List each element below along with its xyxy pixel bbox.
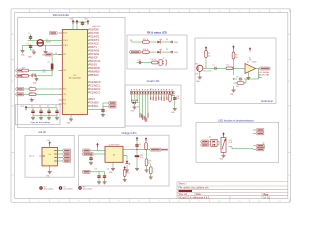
svg-text:H2: H2 <box>64 187 66 189</box>
svg-text:PB5/SCK: PB5/SCK <box>89 74 100 77</box>
svg-text:U4: U4 <box>49 154 51 156</box>
svg-text:R13: R13 <box>127 173 130 175</box>
capacitor C11 <box>103 174 106 179</box>
svg-text:C3: C3 <box>31 105 33 107</box>
mounting hole H2 <box>59 186 62 189</box>
ground <box>39 116 43 120</box>
LED D2 <box>157 49 161 54</box>
ground <box>47 116 51 120</box>
svg-text:R16: R16 <box>149 161 152 163</box>
svg-text:R10: R10 <box>236 86 239 88</box>
node label CHARGE <box>129 51 140 54</box>
ground <box>30 98 34 102</box>
ground <box>21 49 25 53</box>
right label tags column <box>89 29 101 108</box>
capacitor C6 <box>55 109 58 114</box>
capacitor C9 <box>135 143 138 148</box>
svg-text:GND: GND <box>174 52 179 54</box>
IC right pins + stubs <box>88 30 90 106</box>
svg-text:D2: D2 <box>166 49 168 51</box>
ground <box>125 168 129 172</box>
svg-text:C16: C16 <box>42 69 45 71</box>
frame ticks <box>11 9 291 203</box>
comb wires left half <box>132 94 148 116</box>
svg-text:U3 MCP73831: U3 MCP73831 <box>108 144 119 146</box>
svg-text:10k: 10k <box>235 57 238 59</box>
svg-text:U2: U2 <box>247 62 249 64</box>
node label LDR_B <box>256 148 264 151</box>
top power: wires up from IC <box>73 22 88 30</box>
power +3V3 arrow <box>72 20 75 24</box>
node label AN1 <box>256 132 264 135</box>
header connector P1 <box>131 91 175 94</box>
svg-text:U3: U3 <box>113 155 115 157</box>
resistor R13b <box>123 170 126 177</box>
svg-text:File: gerber_tuto_arduino.sch: File: gerber_tuto_arduino.sch <box>179 187 210 190</box>
svg-text:MIC-9x7-B2: MIC-9x7-B2 <box>204 71 212 73</box>
svg-text:100n: 100n <box>42 71 46 73</box>
svg-text:H3: H3 <box>83 187 85 189</box>
svg-text:R7: R7 <box>208 53 210 55</box>
ground <box>48 170 52 174</box>
svg-text:LM358: LM358 <box>252 62 257 64</box>
mounting hole H3 <box>78 186 81 189</box>
resistor R10 <box>237 82 244 85</box>
svg-text:Size: A4: Size: A4 <box>179 193 188 196</box>
svg-text:R12 1k: R12 1k <box>143 39 149 41</box>
svg-text:H1: H1 <box>44 187 46 189</box>
ground <box>111 167 115 171</box>
resistor R19 <box>150 167 153 174</box>
svg-text:R14 1k: R14 1k <box>151 59 157 61</box>
power +5V arrow usb <box>48 141 51 145</box>
resistor R17 <box>22 75 29 78</box>
mounting hole H1 <box>39 186 42 189</box>
node label USB_PWR <box>82 153 93 156</box>
ground <box>103 180 107 184</box>
left diode D3 <box>132 103 139 105</box>
resistor R13 <box>142 51 149 54</box>
svg-text:usb_d+: usb_d+ <box>29 156 34 158</box>
svg-text:C9: C9 <box>139 144 141 146</box>
ground <box>44 49 48 53</box>
svg-text:C11: C11 <box>107 169 110 171</box>
power VCC arrow 3 <box>123 166 126 170</box>
node label INT0 <box>16 69 24 72</box>
ground <box>123 177 127 181</box>
svg-text:D1: D1 <box>166 39 168 41</box>
charge LED vertical <box>126 161 131 165</box>
svg-text:C2: C2 <box>27 43 29 45</box>
node label SDA <box>108 102 116 105</box>
svg-text:LED bicolore et photoresistanc: LED bicolore et photoresistance <box>218 119 254 122</box>
svg-text:Audio Amp: Audio Amp <box>261 100 274 103</box>
resistor R9 <box>226 67 233 70</box>
svg-text:Capa de decouplage: Capa de decouplage <box>30 122 51 124</box>
svg-text:Microcontroller: Microcontroller <box>53 14 70 17</box>
power VCC arrow 2 <box>87 20 90 24</box>
svg-text:D4: D4 <box>122 162 124 164</box>
svg-text:PD5: PD5 <box>63 100 66 102</box>
power VCC arrow charger <box>96 143 99 147</box>
ground <box>32 50 36 54</box>
svg-text:Sheet: /: Sheet: / <box>179 183 187 186</box>
resistor R12 <box>142 41 149 44</box>
capacitor C14 <box>101 108 104 113</box>
power +5V arrow op-amp <box>249 47 252 51</box>
svg-text:P1: P1 <box>150 89 152 91</box>
svg-text:PC5/SCL: PC5/SCL <box>89 105 100 108</box>
op-amp U2 <box>245 64 256 74</box>
row 3: power LED + jumper <box>137 62 160 64</box>
svg-text:10k: 10k <box>177 98 180 100</box>
svg-text:usb off: usb off <box>38 131 46 134</box>
node label USB1 <box>63 149 71 152</box>
node label RXD <box>16 88 24 91</box>
svg-text:R15: R15 <box>229 140 232 142</box>
decoupling caps row <box>26 108 57 116</box>
svg-text:R3: R3 <box>30 92 32 94</box>
capacitor C15 <box>173 96 176 101</box>
node label USB3 <box>63 156 71 159</box>
node label MIC_OUT <box>259 67 270 70</box>
ground <box>222 153 226 157</box>
LDR R15 <box>221 138 226 153</box>
capacitor C12 <box>138 61 142 64</box>
power +5V arrow <box>205 46 208 50</box>
capacitor C4 <box>39 109 42 114</box>
svg-text:Max: Max <box>259 77 262 79</box>
bicolor LED package D5 <box>211 139 217 146</box>
svg-text:C7: C7 <box>213 65 215 67</box>
right resistor + cap <box>170 95 175 107</box>
capacitor C3 <box>31 109 34 114</box>
mic wiring <box>200 48 259 89</box>
crystal Y1 <box>37 40 43 46</box>
svg-text:+3V3 VCC: +3V3 VCC <box>92 26 101 28</box>
svg-text:R15: R15 <box>22 68 25 70</box>
node label LED_G <box>201 144 209 147</box>
node label VBUS <box>82 149 90 152</box>
mic MK1 <box>197 65 203 71</box>
node label TXD <box>16 93 24 96</box>
section titles <box>30 14 274 135</box>
ground <box>101 113 105 117</box>
node label TOSC1 <box>50 32 58 35</box>
resistor R7 <box>205 51 208 58</box>
reset pull-up R1 <box>29 57 52 77</box>
node label RESET_SW <box>16 74 24 77</box>
IC bottom gnd <box>70 115 72 118</box>
ground <box>173 106 177 110</box>
resistor R3 <box>29 93 36 96</box>
svg-text:KiCad E.D.A. eeschema 4.0.2: KiCad E.D.A. eeschema 4.0.2 <box>179 196 210 199</box>
power VCC arrow <box>76 20 79 24</box>
svg-text:ATmega328-A: ATmega328-A <box>69 77 81 80</box>
pins right <box>39 144 63 170</box>
power VCC arrow ldr <box>222 132 225 136</box>
svg-text:R1: R1 <box>48 62 50 64</box>
svg-text:C6: C6 <box>55 105 57 107</box>
node label LED_R <box>201 140 209 143</box>
right half label smudge band <box>150 96 170 101</box>
svg-text:C10: C10 <box>94 169 97 171</box>
svg-text:Id: 1/1: Id: 1/1 <box>264 197 271 199</box>
capacitor C8 <box>238 77 242 80</box>
capacitor C5 <box>47 109 50 114</box>
node label LDR_A <box>256 144 264 147</box>
capacitor C1 <box>29 35 32 40</box>
svg-text:4.7k: 4.7k <box>140 157 143 159</box>
node label RESET <box>45 53 53 56</box>
ground <box>35 77 39 81</box>
node label USB_VIN <box>82 170 90 173</box>
svg-text:MK1: MK1 <box>195 64 199 66</box>
node label USB4 <box>63 160 71 163</box>
IC U4 <box>42 148 57 166</box>
svg-text:PC3/ADC3: PC3/ADC3 <box>89 91 101 94</box>
ground <box>232 88 236 92</box>
ground <box>133 105 137 109</box>
svg-text:C12: C12 <box>138 59 141 61</box>
capacitor C7 <box>213 67 217 70</box>
svg-text:PD7: PD7 <box>63 104 66 106</box>
svg-text:Rev: Rev <box>264 192 269 196</box>
svg-text:1k: 1k <box>149 163 151 165</box>
node label +BATT <box>150 148 161 151</box>
capacitor C13 <box>81 21 84 26</box>
section boxes <box>16 18 279 187</box>
resistor R18 <box>145 143 148 150</box>
resistor R2 <box>29 88 36 91</box>
capacitor C17 <box>89 156 92 161</box>
svg-text:PD2: PD2 <box>63 70 66 72</box>
IC pin name smudges left <box>63 32 68 106</box>
resistor R8 <box>232 52 235 59</box>
ground <box>31 116 35 120</box>
svg-text:R12: R12 <box>140 155 143 157</box>
crystal circuit <box>23 34 63 50</box>
resistor R1 <box>51 64 54 70</box>
svg-text:+3V3: +3V3 <box>70 19 74 21</box>
ground <box>89 161 93 165</box>
svg-text:RX & status LED: RX & status LED <box>147 32 167 35</box>
svg-text:R13 1k: R13 1k <box>143 49 149 51</box>
resistor R16 <box>145 159 148 166</box>
node label AN0 <box>256 129 264 132</box>
power +5V arrow 2 <box>232 45 235 49</box>
ground <box>149 175 153 179</box>
svg-text:D5: D5 <box>209 137 211 139</box>
svg-text:GND: GND <box>174 42 179 44</box>
svg-text:C4: C4 <box>39 105 41 107</box>
svg-text:MIC545_PA2: MIC545_PA2 <box>259 73 270 76</box>
left cluster label smudges <box>139 113 148 122</box>
svg-text:Date:: Date: <box>196 193 202 196</box>
right tags clusters <box>253 130 265 149</box>
LED D1 <box>157 39 161 44</box>
power VCC arrow decoupling <box>25 106 28 110</box>
svg-text:C5: C5 <box>47 105 49 107</box>
node label USB2 <box>63 153 71 156</box>
IC U1 ATmega328 <box>62 30 87 115</box>
svg-text:J1: J1 <box>163 58 165 60</box>
ground <box>69 117 73 121</box>
svg-text:RST: RST <box>63 54 66 56</box>
ground <box>198 75 202 79</box>
svg-text:Charger LiPo: Charger LiPo <box>122 132 137 135</box>
svg-text:C8: C8 <box>236 77 238 79</box>
svg-text:R8: R8 <box>235 55 237 57</box>
ground <box>145 168 149 172</box>
resistor R11 <box>169 94 172 101</box>
title block <box>177 182 288 199</box>
svg-text:10k: 10k <box>208 56 211 58</box>
IC left pins <box>59 33 63 104</box>
svg-text:R2: R2 <box>30 87 32 89</box>
svg-text:C1: C1 <box>28 33 30 35</box>
ground <box>135 167 139 171</box>
node label SCL <box>108 105 116 108</box>
svg-text:D3: D3 <box>137 107 139 109</box>
svg-text:R9: R9 <box>227 65 229 67</box>
ground <box>246 76 250 80</box>
svg-text:16MHz: 16MHz <box>46 42 52 44</box>
header connector P1 pin numbers <box>131 89 172 90</box>
prog resistor filled below wire <box>135 155 140 157</box>
bottom right small parts <box>88 103 109 110</box>
comb wires right half (short stubs) <box>151 94 173 96</box>
row 2: LED D2 <box>139 51 171 53</box>
ground <box>97 180 101 184</box>
svg-text:R11: R11 <box>177 96 180 98</box>
power +BATT arrow 2 <box>145 137 148 141</box>
power +BATT arrow <box>136 137 139 141</box>
IC U3 <box>105 146 123 162</box>
resistor R15 <box>22 69 29 72</box>
svg-text:Graph LCD: Graph LCD <box>147 80 160 83</box>
ground <box>55 116 59 120</box>
capacitor C10 <box>97 174 100 179</box>
capacitor C2 <box>29 44 32 49</box>
sheet frame <box>11 9 291 203</box>
row 1: LED D1 <box>131 41 171 43</box>
